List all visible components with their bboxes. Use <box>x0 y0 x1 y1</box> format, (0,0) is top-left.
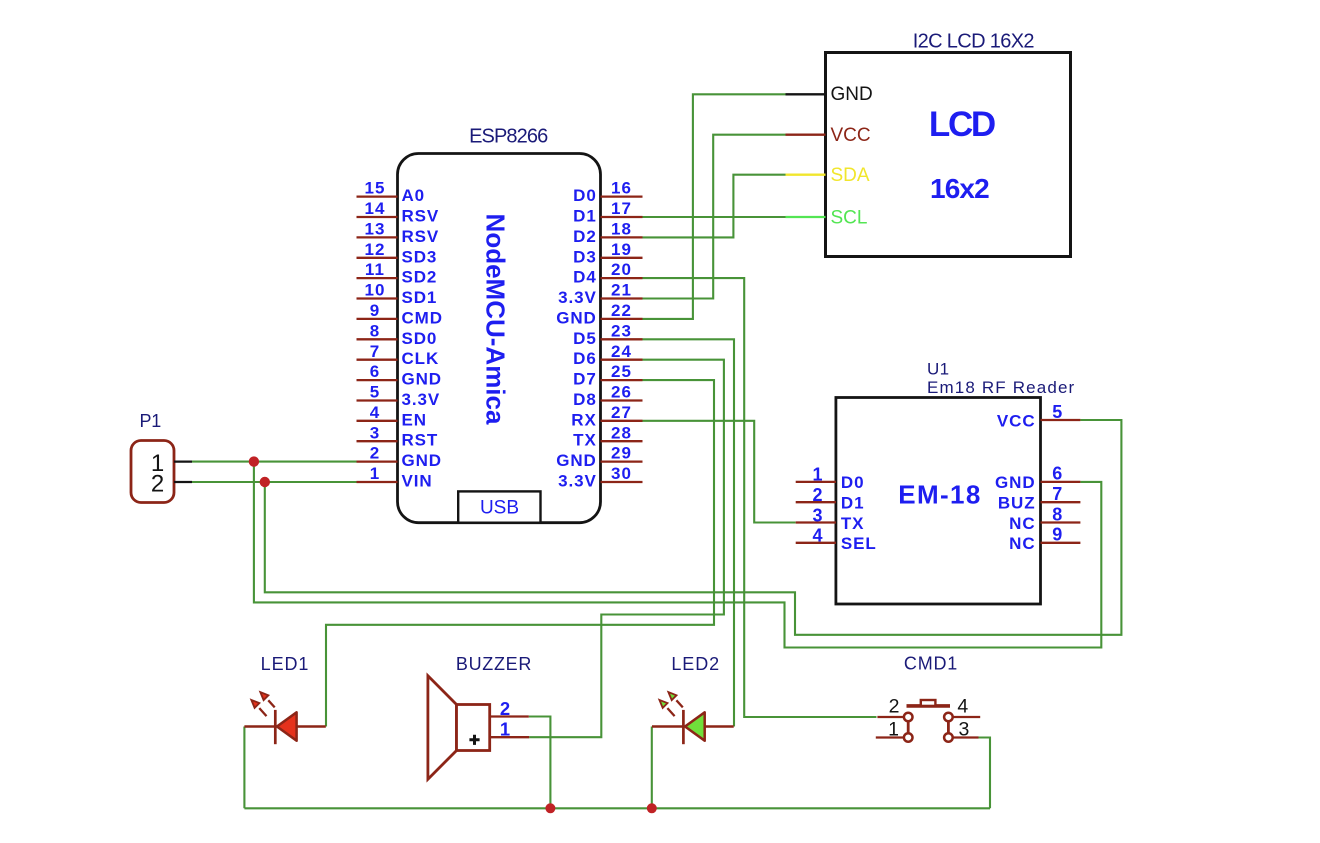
EM-18 pin 9 NC <box>1009 525 1080 554</box>
junction on VIN net <box>260 477 270 487</box>
wire D4 to CMD1 pin 2 <box>643 278 877 717</box>
svg-text:12: 12 <box>364 240 385 259</box>
svg-text:3: 3 <box>370 423 381 442</box>
svg-text:27: 27 <box>611 403 632 422</box>
wire VIN net: P1 junction down and right to EM-18 VCC <box>265 420 1122 635</box>
svg-text:EM-18: EM-18 <box>898 480 982 510</box>
wire CMD1 pin 3 to rail <box>979 738 991 809</box>
svg-text:19: 19 <box>611 240 632 259</box>
wire BUZZER pin 2 to rail <box>529 717 551 809</box>
svg-text:BUZ: BUZ <box>998 494 1036 513</box>
svg-text:21: 21 <box>611 281 632 300</box>
ESP8266 pin 28 TX <box>573 423 642 449</box>
svg-text:NC: NC <box>1009 534 1035 553</box>
CMD1 actuator bar <box>907 700 951 706</box>
svg-text:2: 2 <box>500 698 510 719</box>
svg-text:D5: D5 <box>573 329 597 348</box>
svg-text:D7: D7 <box>573 370 597 389</box>
CMD1 contact bars <box>908 721 948 733</box>
svg-text:2: 2 <box>889 696 900 718</box>
wire RX to EM-18 TX <box>643 421 796 523</box>
svg-text:SEL: SEL <box>841 534 877 553</box>
ESP8266 pin 12 SD3 <box>357 240 438 266</box>
svg-text:20: 20 <box>611 260 632 279</box>
svg-text:TX: TX <box>841 514 865 533</box>
svg-text:LCD: LCD <box>929 105 995 144</box>
svg-text:GND: GND <box>402 451 442 470</box>
BUZZER pin 1 <box>490 718 530 739</box>
svg-text:26: 26 <box>611 383 632 402</box>
ESP8266 module body <box>398 154 601 523</box>
svg-text:GND: GND <box>556 451 596 470</box>
ESP8266 pin 9 CMD <box>357 301 443 327</box>
ESP8266 pin 25 D7 <box>573 362 642 388</box>
svg-text:GND: GND <box>831 84 873 105</box>
svg-text:11: 11 <box>365 260 385 279</box>
wire D2 to LCD SDA <box>643 175 786 238</box>
svg-text:2: 2 <box>151 470 164 497</box>
ESP8266 pin 17 D1 <box>573 199 642 225</box>
wire P1-1 to ESP GND pin2 <box>192 461 357 463</box>
svg-text:A0: A0 <box>402 186 426 205</box>
svg-text:VCC: VCC <box>997 411 1036 430</box>
wire 3.3V pin21 to LCD VCC <box>643 135 786 299</box>
svg-text:1: 1 <box>888 718 899 740</box>
EM-18 pin 3 TX <box>796 505 865 533</box>
svg-text:1: 1 <box>812 465 822 485</box>
svg-text:3: 3 <box>958 718 969 740</box>
svg-text:CLK: CLK <box>402 349 440 368</box>
svg-text:SD3: SD3 <box>402 247 438 266</box>
wire D7 to LED1 anode <box>326 380 714 726</box>
EM-18 pin 2 D1 <box>796 485 865 513</box>
EM-18 RF Reader U1 body <box>836 398 1041 605</box>
ESP8266 pin 24 D6 <box>573 342 642 368</box>
svg-text:LED2: LED2 <box>671 654 720 674</box>
svg-text:ESP8266: ESP8266 <box>469 126 548 148</box>
wire P1-2 to ESP VIN pin1 <box>192 481 357 483</box>
svg-text:2: 2 <box>812 485 822 505</box>
USB connector box <box>458 491 540 522</box>
LCD pin SDA <box>786 165 870 186</box>
ESP8266 pin 18 D2 <box>573 220 642 246</box>
svg-text:7: 7 <box>1052 484 1062 504</box>
svg-text:3.3V: 3.3V <box>558 472 597 491</box>
svg-text:28: 28 <box>611 423 632 442</box>
svg-text:8: 8 <box>370 321 381 340</box>
I2C LCD 16X2 module body <box>826 53 1071 257</box>
wire D6 to BUZZER pin 1 <box>529 360 724 738</box>
svg-text:1: 1 <box>500 718 510 739</box>
ground rail wire <box>244 807 990 809</box>
svg-text:SDA: SDA <box>831 165 870 186</box>
svg-text:D8: D8 <box>573 390 597 409</box>
svg-text:P1: P1 <box>140 411 162 431</box>
svg-text:4: 4 <box>957 696 968 718</box>
ESP8266 pin 16 D0 <box>573 179 642 205</box>
ESP8266 pin 1 VIN <box>357 464 433 490</box>
svg-text:I2C LCD 16X2: I2C LCD 16X2 <box>913 31 1035 53</box>
ESP8266 pin 10 SD1 <box>357 281 438 307</box>
svg-text:CMD1: CMD1 <box>904 654 958 674</box>
svg-text:SCL: SCL <box>831 208 868 229</box>
ESP8266 pin 30 3.3V <box>558 464 642 490</box>
CMD1 contact circle pin1 <box>904 733 913 742</box>
P1 pin 2 <box>151 470 192 497</box>
svg-text:22: 22 <box>611 301 632 320</box>
svg-text:4: 4 <box>812 526 822 546</box>
LED1 emission arrows <box>251 692 274 716</box>
wire LED1 cathode to rail <box>243 727 245 809</box>
svg-text:5: 5 <box>370 383 381 402</box>
svg-text:3.3V: 3.3V <box>558 288 597 307</box>
ESP8266 pin 5 3.3V <box>357 383 441 409</box>
ESP8266 pin 27 RX <box>571 403 642 429</box>
svg-text:LED1: LED1 <box>261 654 310 674</box>
ESP8266 pin 11 SD2 <box>357 260 438 286</box>
LED2 emission arrows <box>659 692 682 716</box>
svg-text:10: 10 <box>364 281 385 300</box>
CMD1 pin 2 <box>877 696 904 718</box>
svg-text:2: 2 <box>370 444 381 463</box>
EM-18 pin 5 VCC <box>997 402 1080 431</box>
svg-text:30: 30 <box>611 464 632 483</box>
LED1 red LED <box>244 710 325 744</box>
CMD1 pin 1 <box>876 718 904 740</box>
svg-text:18: 18 <box>611 220 632 239</box>
LCD pin SCL <box>786 208 868 229</box>
svg-text:GND: GND <box>995 473 1035 492</box>
svg-text:14: 14 <box>364 199 385 218</box>
svg-text:9: 9 <box>1052 525 1062 545</box>
svg-text:BUZZER: BUZZER <box>456 654 532 674</box>
ESP8266 pin 8 SD0 <box>357 321 438 347</box>
svg-text:8: 8 <box>1052 504 1062 524</box>
ESP8266 pin 15 A0 <box>357 179 426 205</box>
svg-text:NodeMCU-Amica: NodeMCU-Amica <box>481 214 511 425</box>
P1 pin 1 <box>151 450 192 477</box>
CMD1 pin 3 <box>953 718 979 740</box>
ESP8266 pin 26 D8 <box>573 383 642 409</box>
BUZZER pin 2 <box>490 698 529 719</box>
svg-text:GND: GND <box>556 308 596 327</box>
svg-text:D0: D0 <box>841 473 865 492</box>
connector P1 body <box>131 441 174 503</box>
svg-text:TX: TX <box>573 431 597 450</box>
EM-18 pin 8 NC <box>1009 504 1080 533</box>
svg-text:RSV: RSV <box>402 207 440 226</box>
wire D5 to LED2 anode <box>643 339 735 726</box>
svg-text:USB: USB <box>480 498 519 519</box>
ESP8266 pin 21 3.3V <box>558 281 642 307</box>
CMD1 contact circle pin4 <box>944 713 953 722</box>
ESP8266 pin 22 GND <box>556 301 642 327</box>
CMD1 contact circle pin2 <box>904 713 913 722</box>
LED2 green LED <box>652 710 734 744</box>
BUZZER speaker symbol <box>428 676 490 779</box>
ESP8266 pin 20 D4 <box>573 260 642 286</box>
svg-text:D6: D6 <box>573 349 597 368</box>
svg-text:6: 6 <box>370 362 381 381</box>
svg-text:29: 29 <box>611 444 632 463</box>
svg-text:U1: U1 <box>927 360 949 379</box>
CMD1 pin 4 <box>953 696 981 718</box>
svg-text:3: 3 <box>812 505 822 525</box>
svg-text:23: 23 <box>611 321 632 340</box>
svg-text:D1: D1 <box>573 207 597 226</box>
LCD pin VCC <box>786 125 871 146</box>
svg-text:RX: RX <box>571 410 596 429</box>
ESP8266 pin 29 GND <box>556 444 642 470</box>
svg-text:6: 6 <box>1052 464 1062 484</box>
ESP8266 pin 2 GND <box>357 444 442 470</box>
svg-text:D1: D1 <box>841 494 865 513</box>
ESP8266 pin 14 RSV <box>357 199 440 225</box>
ESP8266 pin 4 EN <box>357 403 427 429</box>
svg-text:16: 16 <box>611 179 632 198</box>
LCD pin GND <box>786 84 873 105</box>
wire GND pin22 to LCD GND <box>643 94 786 319</box>
svg-text:17: 17 <box>611 199 632 218</box>
svg-text:EN: EN <box>402 410 427 429</box>
svg-text:D0: D0 <box>573 186 597 205</box>
EM-18 pin 4 SEL <box>796 526 877 554</box>
svg-text:15: 15 <box>364 179 385 198</box>
svg-text:SD0: SD0 <box>402 329 438 348</box>
svg-text:SD1: SD1 <box>402 288 438 307</box>
svg-text:NC: NC <box>1009 514 1035 533</box>
wire D1 to LCD SCL <box>643 216 786 218</box>
svg-text:RSV: RSV <box>402 227 440 246</box>
svg-text:1: 1 <box>370 464 381 483</box>
svg-text:CMD: CMD <box>402 308 443 327</box>
CMD1 contact circle pin3 <box>944 733 953 742</box>
ESP8266 pin 23 D5 <box>573 321 642 347</box>
wire LED2 cathode to rail <box>651 727 653 809</box>
svg-text:24: 24 <box>611 342 632 361</box>
svg-text:5: 5 <box>1052 402 1062 422</box>
svg-text:25: 25 <box>611 362 632 381</box>
svg-text:VCC: VCC <box>831 125 871 146</box>
svg-text:Em18 RF Reader: Em18 RF Reader <box>927 378 1075 397</box>
svg-text:D3: D3 <box>573 247 597 266</box>
svg-text:3.3V: 3.3V <box>402 390 441 409</box>
svg-text:D2: D2 <box>573 227 597 246</box>
junction LED2 cathode at rail <box>647 803 657 813</box>
wire GND net: P1 junction down and right to EM-18 GND <box>254 462 1101 648</box>
EM-18 pin 1 D0 <box>796 465 865 493</box>
svg-text:7: 7 <box>370 342 381 361</box>
junction on GND net <box>249 456 259 466</box>
svg-text:GND: GND <box>402 370 442 389</box>
ESP8266 pin 19 D3 <box>573 240 642 266</box>
svg-text:13: 13 <box>364 220 385 239</box>
svg-text:RST: RST <box>402 431 439 450</box>
ESP8266 pin 7 CLK <box>357 342 440 368</box>
svg-text:9: 9 <box>370 301 381 320</box>
EM-18 pin 7 BUZ <box>998 484 1081 513</box>
svg-text:4: 4 <box>370 403 381 422</box>
svg-text:SD2: SD2 <box>402 268 438 287</box>
svg-text:16x2: 16x2 <box>930 173 989 204</box>
EM-18 pin 6 GND <box>995 464 1080 493</box>
ESP8266 pin 6 GND <box>357 362 442 388</box>
ESP8266 pin 3 RST <box>357 423 439 449</box>
junction BUZZER pin2 at rail <box>545 803 555 813</box>
svg-text:D4: D4 <box>573 268 597 287</box>
ESP8266 pin 13 RSV <box>357 220 440 246</box>
svg-text:VIN: VIN <box>402 472 433 491</box>
